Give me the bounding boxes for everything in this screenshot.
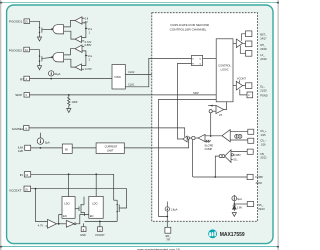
driver BST path — [242, 34, 246, 41]
driver DL — [236, 81, 242, 90]
svg-text:VCCINT: VCCINT — [95, 233, 105, 237]
pin LX — [246, 51, 252, 57]
svg-text:1.8µA: 1.8µA — [171, 207, 178, 211]
svg-text:100K: 100K — [72, 100, 78, 104]
svg-text:29/13: 29/13 — [258, 207, 265, 211]
page rule bottom — [0, 246, 279, 248]
svg-text:21/20: 21/20 — [260, 88, 267, 92]
wire pwm comp to slope amp — [205, 135, 222, 137]
svg-text:0.72V: 0.72V — [85, 40, 92, 44]
svg-text:SS_: SS_ — [233, 158, 238, 162]
wire SS to pin — [234, 203, 247, 205]
wire PGOOD1 to mosfet — [30, 21, 40, 26]
pwm comparator U10 — [222, 130, 230, 142]
LDO U3 — [62, 197, 75, 219]
svg-text:1.8V: 1.8V — [237, 206, 243, 210]
comparator U1b (0.70V) — [75, 36, 81, 43]
current limit block — [96, 143, 124, 154]
wire inverter to LDO2 EN — [76, 215, 89, 224]
maxim logo — [208, 229, 217, 238]
svg-text:GND: GND — [80, 233, 86, 237]
svg-text:7/8: 7/8 — [166, 238, 170, 242]
wire IN to LDO2 — [95, 174, 97, 196]
pin COMP — [247, 174, 253, 179]
svg-text:EN: EN — [90, 214, 94, 218]
buffer 2X — [208, 102, 226, 114]
svg-text:IN: IN — [20, 173, 23, 177]
wire 90 to current limit — [72, 147, 96, 149]
svg-text:CLK2: CLK2 — [128, 70, 135, 74]
wire current limit out — [124, 139, 188, 148]
svg-text:LX_: LX_ — [260, 53, 265, 57]
wire ILIM to 90 box — [31, 147, 63, 149]
wire comp1 out to G1 — [64, 21, 75, 27]
svg-text:2X: 2X — [219, 113, 222, 117]
clamp circles — [222, 155, 225, 158]
oscillator OSC — [112, 65, 125, 90]
wire CLK1 to flipflop S — [125, 58, 191, 86]
svg-text:LDO: LDO — [64, 202, 69, 206]
svg-text:EN_: EN_ — [166, 234, 172, 238]
svg-text:COMP,: COMP, — [255, 175, 263, 179]
transistor Q2 pgood2 pulldown — [39, 55, 44, 63]
svg-text:ILIM,: ILIM, — [18, 146, 24, 150]
ground under resistor — [67, 109, 71, 113]
svg-text:CS_+: CS_+ — [260, 129, 267, 133]
pin GND — [81, 227, 86, 232]
svg-text:BST_: BST_ — [260, 32, 267, 36]
pin CS_+ — [248, 129, 254, 134]
svg-text:OSC: OSC — [114, 75, 121, 79]
outer figure frame — [7, 5, 273, 244]
wire RT to OSC — [30, 78, 113, 80]
svg-text:Q: Q — [199, 59, 201, 61]
pin SS — [247, 202, 254, 207]
wire to LDO1 EN — [59, 215, 62, 224]
wire ILIMSEL to slope comp — [29, 128, 185, 137]
label SS input — [231, 158, 233, 160]
svg-text:CS_−: CS_− — [260, 139, 267, 143]
wire FB to error amp — [231, 151, 247, 153]
summer node — [187, 137, 189, 139]
svg-text:FB_: FB_ — [260, 152, 265, 156]
wire 2X to pwm chain — [210, 113, 212, 136]
transistor Q4 pass PMOS — [114, 200, 121, 221]
svg-text:LIMIT: LIMIT — [107, 148, 114, 152]
svg-text:SLOPE: SLOPE — [205, 143, 214, 147]
ground under Q1 — [37, 34, 41, 41]
corner tick bottom-left — [0, 246, 2, 248]
svg-text:CONTROL: CONTROL — [218, 64, 231, 68]
offset sources on CS+ — [230, 131, 248, 133]
wire comp4 out to G2 — [64, 59, 75, 67]
wire FF Q to control logic — [203, 57, 217, 59]
inverter U6 — [66, 220, 74, 227]
svg-text:DL_: DL_ — [260, 84, 265, 88]
corner tick top-right — [277, 2, 279, 4]
node VFB2 — [82, 51, 88, 66]
wire PWM to FF R — [178, 63, 192, 139]
comparator U2a (0.88V) — [75, 45, 82, 52]
pin FB — [247, 149, 253, 154]
current source 10uA on RT — [49, 71, 54, 80]
svg-text:5µA: 5µA — [237, 197, 242, 201]
dashed duplicate-channel box — [152, 13, 258, 222]
svg-text:2/15: 2/15 — [261, 133, 267, 137]
svg-text:1/16: 1/16 — [261, 142, 267, 146]
svg-text:SKIP: SKIP — [15, 93, 22, 97]
wire G1 out to Q1 gate — [44, 29, 51, 31]
gain block 90 — [62, 144, 72, 153]
ref bubble 0.88V — [231, 154, 233, 156]
pin VCCINT — [98, 227, 103, 232]
wire U5 out — [57, 223, 67, 225]
svg-text:LDO: LDO — [92, 202, 97, 206]
driver DH — [236, 39, 242, 48]
flipflop U7 — [192, 55, 203, 65]
svg-text:5µA: 5µA — [45, 141, 50, 145]
svg-text:10µA: 10µA — [54, 72, 60, 76]
svg-text:DH_: DH_ — [260, 43, 266, 47]
wire comp3 out to G2 — [64, 49, 75, 55]
error amp U11 — [225, 150, 231, 163]
transistor Q1 pgood1 pulldown — [39, 26, 44, 34]
pin DH — [246, 41, 252, 47]
ref stub 0.70V comp4 — [82, 68, 85, 70]
current source 1.8uA EN — [165, 202, 169, 212]
svg-text:LOGIC: LOGIC — [221, 67, 229, 71]
wire CS- to pwm comp — [230, 139, 248, 141]
wire VCCEXT to comparator — [36, 189, 48, 222]
svg-text:0.88V: 0.88V — [234, 153, 241, 157]
pin CS_- — [248, 138, 254, 143]
svg-text:COMP: COMP — [205, 147, 213, 151]
svg-text:EN: EN — [63, 214, 67, 218]
control logic block — [216, 39, 233, 102]
svg-text:0.70V: 0.70V — [85, 67, 92, 71]
corner tick bottom-right — [277, 246, 279, 248]
ground under zener — [232, 213, 236, 217]
wire LX — [240, 46, 245, 54]
svg-text:SKIP: SKIP — [193, 91, 199, 95]
wire IN rail — [31, 174, 114, 200]
NAND gate G2 (mirrored) — [53, 53, 64, 62]
buffer U8 (slope out) — [183, 136, 187, 142]
zener 1.8V — [233, 206, 237, 209]
pin PGND — [240, 89, 247, 95]
svg-text:30/32: 30/32 — [256, 181, 263, 185]
svg-text:1/28: 1/28 — [18, 149, 24, 153]
stub lower input U5 — [46, 225, 48, 227]
wire to EN pin — [166, 211, 168, 227]
current source 5uA on ILIM — [37, 133, 43, 149]
svg-text:CONTROLLER CHANNEL.: CONTROLLER CHANNEL. — [170, 27, 208, 31]
wire IN to LDO1 — [68, 174, 70, 196]
drain to vccint rail — [116, 213, 118, 221]
ref stub 0.88V comp1 — [82, 17, 84, 19]
wire G2 out to Q2 gate — [44, 57, 51, 60]
ref stub 0.70V comp2 — [82, 40, 85, 42]
wire COMP rail — [193, 176, 247, 178]
corner tick top-left — [0, 2, 2, 4]
wire error amp out to COMP — [215, 156, 219, 177]
wire VCCEXT rail — [31, 189, 127, 208]
ground under Q2 — [37, 63, 41, 70]
multiplier node — [192, 136, 195, 139]
pin DL — [246, 83, 252, 89]
svg-text:MAX17559: MAX17559 — [220, 232, 245, 238]
svg-text:PGOOD1: PGOOD1 — [9, 20, 23, 24]
svg-text:Q: Q — [199, 64, 201, 66]
page edge left — [0, 0, 2, 250]
svg-text:PGND: PGND — [260, 93, 268, 97]
svg-text:PGOOD2: PGOOD2 — [9, 48, 23, 52]
wire PGOOD2 to mosfet — [29, 50, 39, 55]
node VFB1 — [82, 23, 88, 38]
rail VCCINT node — [85, 220, 118, 222]
comparator U1a (0.88V) — [75, 17, 82, 24]
svg-text:SS_,: SS_, — [258, 203, 264, 207]
pin EN — [165, 227, 171, 233]
svg-text:4.7V: 4.7V — [38, 224, 44, 228]
svg-text:23/18: 23/18 — [260, 47, 267, 51]
svg-text:CLK1: CLK1 — [128, 82, 135, 86]
wire COMP to multiplier — [192, 140, 194, 177]
wire comp2 out to G1 — [64, 31, 76, 39]
transistor Q3 between LDOs — [75, 197, 85, 216]
wire CLK2 — [125, 74, 152, 76]
LDO U4 — [89, 196, 103, 218]
svg-text:31/12: 31/12 — [260, 156, 267, 160]
page edge right — [277, 0, 279, 250]
current source 5uA SS — [232, 195, 237, 201]
slope waveform glyph — [205, 140, 211, 142]
resistor 100K on SKIP — [68, 94, 70, 109]
slope comp amp U9 — [198, 134, 205, 141]
wire EN to control logic — [159, 99, 217, 216]
svg-text:CURRENT: CURRENT — [105, 145, 118, 149]
wire SS node — [233, 201, 235, 211]
svg-text:ILIMSEL: ILIMSEL — [12, 127, 24, 131]
wire SKIP to control logic — [30, 94, 217, 96]
svg-text:0.8: 0.8 — [85, 16, 89, 20]
page rule top — [0, 2, 279, 4]
ref stub 0.88V comp3 — [82, 45, 84, 47]
svg-text:22/19: 22/19 — [260, 57, 267, 61]
svg-text:VCCEXT: VCCEXT — [9, 189, 22, 193]
svg-text:0.88V: 0.88V — [85, 43, 92, 47]
svg-text:VCONT: VCONT — [237, 77, 246, 81]
comparator U2b (0.70V) — [75, 64, 81, 71]
NAND gate G1 (mirrored) — [53, 25, 64, 34]
svg-text:24/17: 24/17 — [260, 36, 267, 40]
pin BST — [246, 31, 252, 37]
comparator U5 4.7V — [48, 219, 57, 228]
